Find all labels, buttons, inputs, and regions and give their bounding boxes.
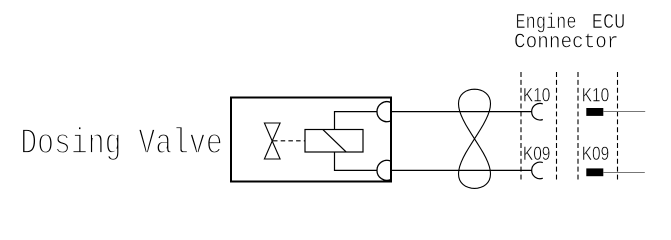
pin 1 semicircle — [377, 102, 391, 122]
connector boundary dashed line 4 — [617, 72, 619, 180]
wire pin2 to connector K09 — [392, 169, 532, 171]
pin 2 semicircle — [377, 160, 391, 180]
svg-text:K10: K10 — [523, 85, 551, 107]
solenoid coil box — [305, 130, 363, 153]
wire pin1 to connector K10 — [392, 111, 532, 113]
wire coil bottom to pin 2 — [335, 152, 378, 170]
ECU pin blade K10 — [586, 108, 603, 116]
twisted pair symbol — [459, 89, 491, 188]
socket terminal K10 arc — [532, 103, 543, 120]
coil diagonal — [323, 130, 346, 152]
valve bowtie symbol — [264, 123, 280, 159]
svg-text:K09: K09 — [523, 143, 551, 165]
wire coil top to pin 1 — [335, 112, 378, 130]
ECU internal wire K10 — [603, 111, 645, 113]
socket terminal K09 arc — [532, 162, 543, 179]
svg-text:Connector: Connector — [514, 32, 619, 55]
dosing valve enclosure box — [231, 98, 391, 182]
connector boundary dashed line 1 — [520, 72, 522, 180]
svg-text:K10: K10 — [582, 85, 610, 107]
connector boundary dashed line 3 — [577, 72, 579, 180]
ECU internal wire K09 — [603, 172, 645, 174]
ECU pin blade K09 — [586, 168, 603, 176]
svg-text:Dosing Valve: Dosing Valve — [20, 123, 223, 164]
dashed actuation link — [273, 140, 305, 142]
connector boundary dashed line 2 — [556, 72, 558, 180]
svg-text:K09: K09 — [582, 143, 610, 165]
